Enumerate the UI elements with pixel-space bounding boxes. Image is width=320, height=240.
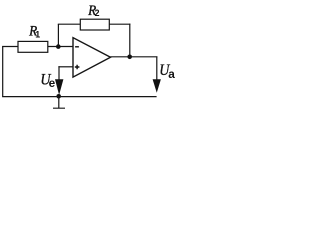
wire output horizontal — [110, 56, 157, 58]
op-amp U1 — [73, 38, 111, 78]
wire feedback vertical up — [57, 24, 59, 46]
svg-text:e: e — [49, 76, 56, 90]
wire left vertical branch — [2, 47, 4, 97]
op-amp plus marker — [75, 65, 80, 70]
node output junction — [127, 55, 132, 60]
node ground junction — [56, 94, 61, 99]
node inverting input junction — [56, 44, 61, 49]
wire R1 to inverting input — [48, 46, 73, 48]
wire feedback top right horizontal — [109, 23, 130, 25]
wire left horizontal to R1 — [2, 46, 19, 48]
svg-text:2: 2 — [95, 8, 100, 18]
voltage arrow Ue — [55, 79, 63, 95]
resistor R1 — [18, 41, 48, 52]
svg-text:a: a — [168, 67, 175, 81]
wire feedback vertical down to output — [129, 24, 131, 57]
resistor R2 — [80, 19, 109, 30]
op-amp minus marker — [75, 46, 79, 48]
wire bottom rail — [2, 96, 157, 98]
voltage arrow Ua — [156, 56, 158, 80]
wire noninverting input horizontal — [58, 66, 73, 68]
ground — [53, 97, 65, 109]
wire noninverting corner vertical — [58, 66, 60, 80]
wire feedback top left horizontal — [58, 23, 81, 25]
svg-text:1: 1 — [35, 30, 40, 40]
